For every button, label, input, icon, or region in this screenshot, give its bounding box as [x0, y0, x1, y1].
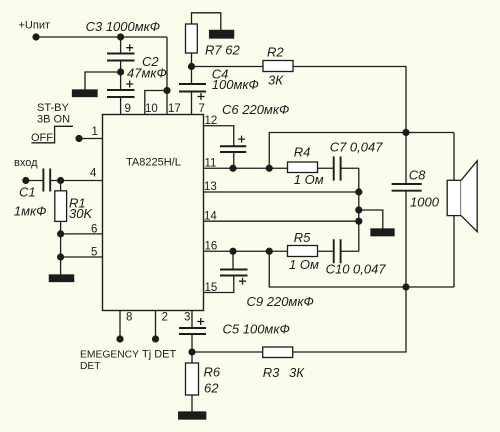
node C3/C2 gnd: [117, 68, 124, 75]
speaker cone: [461, 161, 477, 232]
svg-text:62: 62: [204, 381, 219, 396]
svg-text:вход: вход: [14, 157, 38, 169]
wire C3 to C2: [120, 61, 122, 91]
node R7/C4: [188, 63, 195, 70]
capacitor C3: [107, 54, 135, 61]
node pin17: [163, 87, 170, 94]
wire node to C4: [191, 67, 193, 85]
node pin16 rail: [266, 248, 273, 255]
switch ST-BY step: [31, 126, 73, 143]
svg-text:1000: 1000: [410, 195, 440, 210]
speaker body: [447, 180, 461, 215]
resistor R1 body: [55, 191, 67, 222]
svg-text:R7 62: R7 62: [205, 43, 240, 58]
resistor R2 body: [263, 61, 293, 72]
svg-text:100мкФ: 100мкФ: [212, 77, 259, 92]
node input: [22, 177, 29, 184]
wire pin 10 up: [145, 91, 167, 115]
svg-text:TA8225H/L: TA8225H/L: [126, 157, 181, 169]
wire out- rail: [269, 251, 454, 287]
svg-text:1: 1: [92, 126, 98, 138]
wire C9 top lead: [232, 251, 234, 269]
speaker lead top: [453, 133, 455, 181]
svg-text:1 Ом: 1 Ом: [289, 257, 319, 272]
wire pin 2 down: [155, 311, 157, 340]
wire input to C1: [26, 180, 44, 182]
wire pin 14: [204, 220, 359, 222]
svg-text:13: 13: [204, 181, 217, 193]
wire R5 to C10: [318, 250, 334, 252]
C2 plus sign: [126, 81, 133, 88]
wire pin 3 down: [191, 311, 193, 329]
svg-text:C9 220мкФ: C9 220мкФ: [247, 294, 314, 309]
svg-text:DET: DET: [80, 361, 101, 372]
wire R1 bottom to ground: [60, 221, 62, 275]
svg-text:R2: R2: [267, 45, 284, 60]
svg-text:C7 0,047: C7 0,047: [330, 139, 384, 154]
svg-text:R3: R3: [263, 365, 280, 380]
wire pin 12 to C6: [204, 126, 234, 147]
svg-text:15: 15: [205, 282, 218, 294]
svg-text:16: 16: [205, 241, 218, 253]
wire C3 top lead: [120, 37, 122, 54]
svg-text:7: 7: [199, 103, 205, 115]
wire C10 to gnd bus: [341, 250, 359, 252]
svg-text:OFF: OFF: [31, 132, 53, 144]
node pin5: [57, 253, 64, 260]
capacitor C8: [392, 184, 422, 191]
C4 plus sign: [198, 93, 205, 100]
capacitor C4: [179, 84, 206, 92]
wire pin 17 up to rail: [166, 37, 168, 115]
capacitor C6: [220, 146, 246, 152]
svg-text:12: 12: [205, 115, 218, 127]
C3 plus sign: [126, 44, 133, 51]
capacitor C2: [107, 90, 135, 97]
node pin1: [75, 135, 82, 142]
resistor R3 body: [263, 347, 293, 358]
wire pin 1: [79, 138, 103, 140]
wire out+ rail: [269, 133, 454, 169]
capacitor C9: [220, 270, 248, 276]
svg-text:47мкФ: 47мкФ: [127, 66, 167, 81]
wire C2 to pin 9: [120, 97, 122, 115]
wire R7 top to ground: [192, 13, 221, 31]
node C9/pin16: [229, 248, 236, 255]
resistor R5 body: [288, 246, 318, 257]
svg-text:+Uпит: +Uпит: [19, 20, 51, 32]
op-amp U1 TA8225H/L body: [103, 115, 204, 311]
svg-text:R6: R6: [204, 365, 221, 380]
wire pin 16 to R5: [204, 250, 288, 252]
capacitor C10: [334, 239, 341, 263]
resistor R4 body: [288, 162, 318, 173]
wire pin 8 down: [119, 311, 121, 340]
node pin14 bus: [355, 218, 362, 225]
node pin2: [152, 335, 159, 342]
C6 plus sign: [238, 136, 245, 143]
node +U: [32, 33, 39, 40]
wire R3 right up to rail: [293, 287, 406, 352]
wire pin 13: [204, 191, 359, 193]
node gnd tap: [355, 206, 362, 213]
wire gnd tap: [359, 210, 383, 229]
capacitor C1: [43, 169, 50, 192]
svg-text:C3 1000мкФ: C3 1000мкФ: [86, 19, 161, 34]
capacitor C7: [334, 156, 341, 180]
ground bar near C3: [73, 90, 98, 97]
svg-text:R5: R5: [294, 230, 311, 245]
node pin13 bus: [355, 188, 362, 195]
wire +U rail top: [36, 36, 167, 38]
wire pin 11 to R4: [204, 167, 288, 169]
svg-text:R4: R4: [294, 145, 311, 160]
ground bar bottom: [179, 412, 206, 419]
svg-text:5: 5: [91, 247, 97, 259]
speaker lead bottom: [453, 216, 455, 287]
svg-text:17: 17: [168, 103, 181, 115]
resistor R6 body: [186, 363, 199, 395]
wire C1 to pin 4: [50, 180, 102, 182]
wire R1 top lead: [60, 181, 62, 191]
wire C6 to pin11 wire: [233, 152, 235, 168]
wire R4 to C7: [318, 167, 334, 169]
svg-text:ST-BY: ST-BY: [37, 102, 69, 114]
wire C4 to pin 7: [191, 92, 193, 115]
svg-text:3К: 3К: [289, 365, 305, 380]
wire node to R3: [192, 351, 263, 353]
node C6/pin11: [229, 165, 236, 172]
svg-text:4: 4: [90, 168, 97, 180]
node pin6: [57, 230, 64, 237]
svg-text:Tj DET: Tj DET: [142, 349, 177, 361]
node C3 top: [117, 33, 124, 40]
capacitor C5: [179, 328, 206, 334]
svg-text:2: 2: [162, 312, 168, 324]
svg-text:3К: 3К: [268, 73, 284, 88]
svg-text:C8: C8: [409, 168, 426, 183]
C8 bottom lead: [405, 191, 407, 287]
node pin8: [116, 335, 123, 342]
wire gnd bus vertical: [358, 168, 360, 251]
svg-text:C5 100мкФ: C5 100мкФ: [223, 322, 290, 337]
svg-text:11: 11: [205, 158, 217, 170]
wire C5 to node: [191, 334, 193, 352]
svg-text:C1: C1: [19, 185, 36, 200]
svg-text:14: 14: [204, 211, 217, 223]
wire ground stub C3/C2: [85, 72, 121, 90]
node out-: [402, 283, 409, 290]
ground bar mid right: [371, 229, 394, 236]
svg-text:EMEGENCY: EMEGENCY: [80, 350, 139, 361]
wire R7 bottom to node: [191, 53, 193, 67]
ground bar left: [49, 275, 73, 282]
wire R6 to ground: [191, 395, 193, 412]
svg-text:C10 0,047: C10 0,047: [326, 262, 387, 277]
wire R2 right down to out rail: [293, 67, 406, 133]
wire R6 top lead: [191, 352, 193, 363]
ground bar near R7: [210, 30, 234, 38]
svg-text:1 Ом: 1 Ом: [294, 172, 324, 187]
wire C9 to pin 15: [204, 276, 234, 293]
resistor R7 body: [186, 24, 198, 53]
C9 plus sign: [239, 278, 246, 285]
svg-text:C6 220мкФ: C6 220мкФ: [222, 102, 289, 117]
svg-text:30K: 30K: [69, 206, 93, 221]
svg-text:6: 6: [91, 224, 97, 236]
node out+: [402, 129, 409, 136]
wire node to R2: [192, 66, 264, 68]
svg-text:10: 10: [145, 103, 158, 115]
svg-text:1мкФ: 1мкФ: [14, 204, 47, 219]
svg-text:9: 9: [125, 103, 131, 115]
svg-text:3: 3: [184, 312, 190, 324]
svg-text:8: 8: [126, 312, 132, 324]
node pin11 rail: [266, 165, 273, 172]
svg-text:3В ON: 3В ON: [37, 114, 70, 126]
capacitor C8 top lead: [405, 133, 407, 185]
node C1/R1: [57, 177, 64, 184]
wire pin 5: [61, 256, 103, 258]
C5 plus sign: [197, 318, 204, 325]
node C5/R6/R3: [188, 348, 195, 355]
wire pin 6: [61, 233, 103, 235]
wire C7 to gnd bus: [341, 167, 359, 169]
